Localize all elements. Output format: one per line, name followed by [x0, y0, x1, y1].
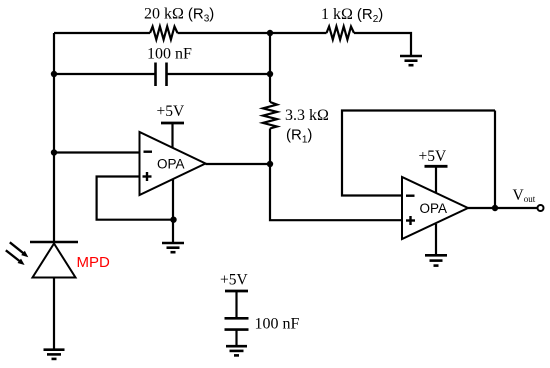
wire: op-amp2 negative supply pin to ground	[435, 224, 437, 254]
svg-text:3.3 kΩ: 3.3 kΩ	[285, 107, 329, 124]
label: +5V (op-amp2)	[419, 148, 447, 165]
svg-text:1 kΩ (R2): 1 kΩ (R2)	[321, 6, 383, 25]
label: (R1) designator	[286, 127, 312, 146]
label: 100 nF (decoupling cap)	[255, 316, 300, 333]
resistor R2	[327, 27, 355, 40]
label: Vout	[513, 187, 536, 204]
svg-text:+5V: +5V	[157, 103, 185, 120]
power +5V rail (op-amp1)	[161, 123, 184, 149]
wire: feedback capacitor right segment	[167, 73, 270, 75]
ground (top right, R2)	[400, 56, 422, 65]
ground (op-amp2)	[425, 255, 447, 265]
wire: op-amp2 output	[468, 207, 537, 209]
ground (op-amp1)	[162, 243, 184, 252]
wire: mid rail upper (top wire to R1)	[269, 33, 271, 102]
label: +5V (op-amp1)	[157, 103, 185, 120]
wire: op-amp1 negative supply pin to ground	[172, 179, 174, 242]
op-amp U2	[402, 177, 468, 239]
wire: left rail	[53, 33, 55, 241]
light arrow 2	[6, 250, 25, 265]
wire: feedback capacitor left segment	[54, 73, 155, 75]
node: op-amp1 output junction on mid rail	[267, 161, 273, 167]
wire: decoupling cap to ground	[235, 330, 237, 345]
op-amp U1	[140, 132, 206, 195]
capacitor C1 100 nF (feedback)	[156, 63, 167, 87]
node: mid rail / C wire junction	[267, 71, 273, 77]
svg-text:Vout: Vout	[513, 187, 536, 204]
wire: photodiode anode to ground	[53, 278, 55, 350]
svg-text:OPA: OPA	[157, 157, 185, 172]
ground (decoupling cap)	[226, 346, 247, 355]
capacitor C2 100 nF (decoupling)	[225, 318, 249, 329]
wire: op-amp1 non-inverting loop to ground	[97, 177, 174, 220]
node: loop / supply pin junction	[170, 217, 176, 223]
photodiode MPD triangle	[33, 244, 76, 278]
power +5V rail (op-amp2)	[425, 166, 448, 193]
wire: top net between R3 and R2	[178, 32, 327, 34]
resistor R1 3.3k (vertical)	[263, 102, 277, 129]
svg-text:+5V: +5V	[220, 272, 248, 289]
wire: mid rail lower (R1 to op-amp2 + input)	[270, 129, 401, 221]
svg-text:(R1): (R1)	[286, 127, 312, 146]
node: junction top wire / mid rail	[267, 30, 273, 36]
svg-text:OPA: OPA	[420, 201, 448, 216]
svg-text:20 kΩ (R3): 20 kΩ (R3)	[144, 6, 214, 25]
label: 1 kOhm (R2) value	[321, 6, 383, 25]
svg-text:MPD: MPD	[77, 254, 111, 271]
photodiode MPD cathode bar	[30, 241, 78, 243]
svg-text:+5V: +5V	[419, 148, 447, 165]
label: 20 kOhm (R3) value	[144, 6, 214, 25]
label: +5V (decoupling)	[220, 272, 248, 289]
resistor R3	[150, 27, 178, 40]
power +5V rail (decoupling cap)	[225, 291, 248, 318]
ground (photodiode)	[44, 350, 65, 359]
wire: op-amp1 output to mid rail	[206, 163, 271, 165]
wire: op-amp2 feedback box	[342, 111, 495, 196]
light arrow 1	[10, 242, 29, 257]
svg-text:100 nF: 100 nF	[255, 316, 300, 333]
svg-text:100 nF: 100 nF	[147, 46, 192, 63]
terminal: Vout open circle	[538, 205, 544, 211]
node: output junction	[492, 205, 498, 211]
label: 3.3 kOhm value	[285, 107, 329, 124]
wire: top net from left rail to R3	[54, 32, 150, 34]
node: left rail / C feedback wire	[51, 71, 57, 77]
label: MPD	[77, 254, 111, 271]
wire: op-amp1 inverting input	[54, 151, 139, 153]
label: 100 nF (feedback cap)	[147, 46, 192, 63]
node: left rail / inverting input wire	[51, 149, 57, 155]
wire: R2 to ground drop	[354, 33, 411, 55]
wire: op-amp2 feedback right drop to output	[494, 111, 496, 209]
